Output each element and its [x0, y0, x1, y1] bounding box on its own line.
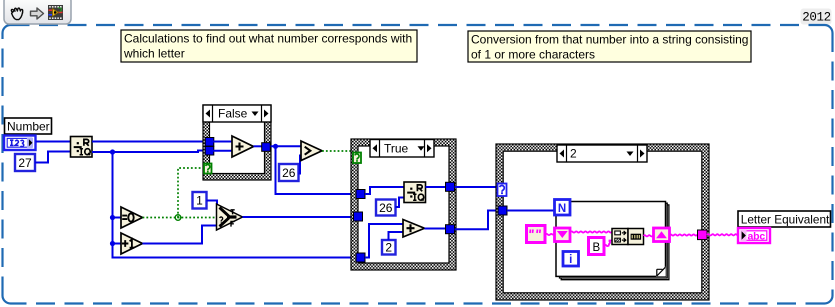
vertical rail from junction [113, 152, 357, 258]
wire select output to True tunnel [243, 216, 356, 218]
svg-text:2: 2 [570, 147, 577, 161]
False selector label [203, 105, 271, 122]
False tunnel upper [205, 138, 214, 147]
for loop frame [556, 202, 666, 277]
2012 version tag background [801, 9, 832, 25]
numeric constant 1 [193, 192, 207, 209]
svg-text:False: False [218, 107, 248, 121]
wire 26 to greater node [299, 156, 302, 174]
False tunnel lower [205, 146, 214, 155]
wire 27 to QR y-input [35, 152, 71, 163]
numeric constant 26 second [376, 200, 396, 216]
svg-text:2012: 2012 [802, 11, 830, 25]
wire 2 to add2 [389, 232, 404, 240]
wire to =0 input [113, 217, 122, 219]
boolean wire greater to True selector [322, 151, 354, 158]
increment node [121, 233, 143, 254]
quotient-remainder node U2 [404, 182, 426, 203]
svg-text:Calculations to find out what: Calculations to find out what number cor… [124, 32, 412, 46]
greater-than node [301, 141, 322, 161]
VI icon toolbar button [48, 5, 63, 20]
comment: conversion [468, 31, 751, 62]
boolean wire junction to case selector [178, 168, 204, 218]
svg-text:26: 26 [379, 201, 393, 215]
True right tunnel sum [446, 225, 455, 234]
quotient-remainder node U1 [71, 137, 93, 158]
wire sum to outer tunnel [455, 211, 499, 230]
comment: calculations [121, 30, 417, 62]
N count terminal [555, 200, 571, 216]
wire add2 to tunnel [425, 228, 447, 230]
string wire converter to right shift register [644, 235, 654, 236]
numeric constant 26 [279, 164, 299, 181]
case selector terminal ? [498, 184, 507, 197]
False case selector tunnel ? [204, 164, 212, 174]
junction to =0 [110, 215, 115, 220]
wire tunnel A to QR2 [365, 187, 404, 194]
case structure True frame [351, 139, 456, 270]
wire QR2 R-output to tunnel [426, 186, 447, 188]
boolean junction [175, 215, 181, 221]
wire to +1 input [113, 243, 122, 245]
wire junction down to True tunnel A [276, 146, 357, 194]
empty string constant [527, 226, 546, 243]
wire R to case selector [455, 186, 498, 188]
left shift register [555, 228, 571, 242]
select node [217, 204, 243, 230]
wire tunnels to add node [213, 142, 232, 151]
output tunnel string [698, 230, 708, 240]
case structure 2 frame [496, 144, 709, 300]
wire QR R-output to False tunnel [92, 141, 206, 143]
True selector label [370, 140, 434, 158]
wire I32 to QR x-input [36, 141, 71, 143]
string converter node [612, 229, 644, 245]
i iteration terminal [563, 252, 579, 267]
numeric constant 27 [15, 154, 35, 171]
label Letter Equivalent [738, 211, 831, 227]
svg-text:of 1 or more characters: of 1 or more characters [471, 48, 595, 62]
string wire shift register to converter [571, 231, 613, 232]
case 2 selector label [557, 145, 647, 162]
svg-text:which letter: which letter [123, 47, 185, 61]
string wire const to shift register [546, 234, 555, 235]
svg-text:26: 26 [282, 166, 296, 180]
string constant B [589, 238, 605, 255]
right shift register [654, 228, 670, 242]
svg-text:N: N [558, 203, 566, 215]
hand (scroll) tool icon [11, 8, 22, 20]
terminal I32 (Number control) [4, 136, 36, 151]
svg-text:Letter Equivalent: Letter Equivalent [741, 213, 830, 227]
wire 1 to select t-input [207, 201, 218, 209]
False right tunnel [262, 143, 271, 152]
svg-text:27: 27 [18, 156, 32, 170]
string wire tunnel to indicator [707, 234, 738, 235]
svg-text:Conversion from that number in: Conversion from that number into a strin… [471, 33, 748, 47]
svg-text:B: B [592, 242, 600, 254]
boolean wire =0 to select [143, 217, 217, 219]
outer tunnel N [498, 206, 507, 215]
junction to +1 [110, 241, 115, 246]
tools palette panel [4, 0, 71, 24]
label Number [5, 118, 52, 134]
svg-text:i: i [569, 254, 572, 266]
for loop dog-ear [656, 267, 666, 277]
svg-text:abc: abc [748, 231, 766, 243]
True tunnel C [356, 253, 365, 262]
for loop stacked pages [560, 203, 669, 280]
junction on IQ wire [110, 149, 115, 154]
wire tunnel C to add2 [365, 224, 403, 258]
string wire B to converter [605, 241, 613, 247]
svg-text:2: 2 [385, 241, 392, 255]
wire 26 to QR2 y-input [396, 198, 405, 208]
svg-text:1: 1 [196, 194, 203, 208]
True right tunnel R [446, 182, 455, 191]
wire QR IQ-output to False tunnel [92, 151, 206, 153]
equal-to-zero node [121, 207, 143, 228]
wire False tunnel to greater node [271, 145, 302, 147]
wire tunnel to N terminal [507, 210, 554, 212]
True tunnel A [356, 190, 365, 199]
string wire to output tunnel [670, 234, 698, 235]
True case selector tunnel ? [353, 153, 361, 164]
junction after False [273, 144, 278, 149]
positioning arrow tool icon [31, 8, 44, 19]
wire +1 to select [143, 226, 217, 244]
wire add to right tunnel [254, 145, 267, 147]
add node in False case [232, 136, 254, 157]
case structure False frame [203, 105, 271, 180]
svg-text:Number: Number [7, 120, 50, 134]
numeric constant 2 [382, 240, 396, 255]
terminal abc indicator [738, 228, 770, 243]
True tunnel B [354, 212, 363, 221]
svg-text:True: True [384, 141, 409, 155]
add node in True case [403, 220, 425, 238]
